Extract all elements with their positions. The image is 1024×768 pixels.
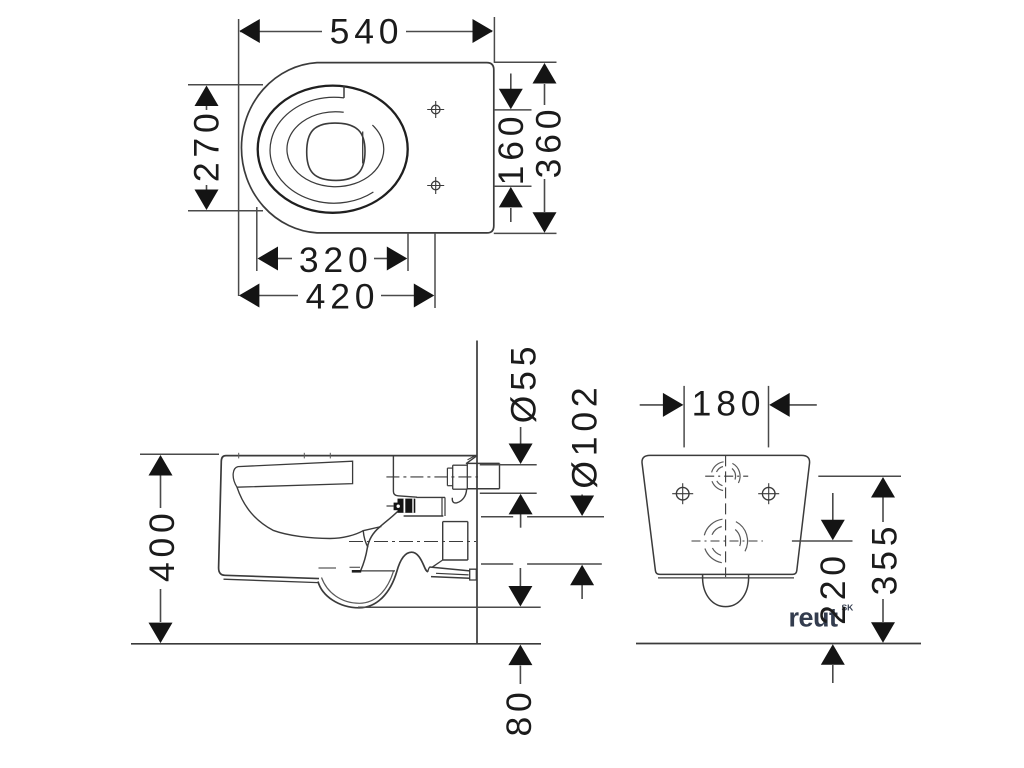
dim 320 arrow left xyxy=(258,247,279,271)
top view: rim inner spiral xyxy=(270,97,373,203)
side view: outlet box diagonal xyxy=(432,560,443,567)
dim 355 line xyxy=(882,497,884,522)
top view: fixing hole lower xyxy=(427,177,444,194)
side view: floor line left xyxy=(131,643,541,645)
dim 420 arrow left xyxy=(239,284,260,308)
dim 355 arrow top xyxy=(871,477,895,498)
dim 420 line xyxy=(258,295,298,297)
side view: sump tick bold xyxy=(352,570,361,573)
side view: weir back curve xyxy=(361,512,398,571)
rear view: fixing hole right xyxy=(758,483,779,504)
side view: flange step xyxy=(447,467,452,469)
dim 320 ext left xyxy=(256,207,258,271)
side view: seat surface xyxy=(233,461,352,487)
rear view: outlet bump xyxy=(703,574,749,606)
side view: trap U inner xyxy=(322,571,394,603)
svg-text:540: 540 xyxy=(330,12,404,52)
dim 80 arrow bottom xyxy=(508,645,532,666)
dim 160/360 ext top xyxy=(494,61,557,63)
dim 160 arrow top xyxy=(499,89,523,110)
rear view: outlet axis dash xyxy=(692,540,763,542)
side view: spigot flange xyxy=(453,464,468,466)
dim 400 arrow top xyxy=(149,455,173,476)
dim 220 arrow bottom xyxy=(821,644,845,665)
dim 160/360 ext bottom xyxy=(494,232,557,234)
side view: spigot hook xyxy=(452,489,466,503)
dim 420 ext right xyxy=(434,233,436,308)
dim 160 line xyxy=(510,74,512,90)
dim 270 arrow top xyxy=(195,86,219,107)
dim 540 ext left xyxy=(238,19,240,296)
side view: trap U outer xyxy=(318,552,428,608)
side view: water dash 1 xyxy=(319,567,337,569)
dim O55 arrow top xyxy=(509,444,533,465)
dim O102 ext top xyxy=(481,516,513,518)
dim 540 arrow left xyxy=(239,19,259,43)
side view: top edge xyxy=(226,455,477,457)
dim O55 ext bottom xyxy=(480,492,537,494)
dim O102 line xyxy=(581,495,583,496)
dim O55 line xyxy=(520,427,522,444)
top view: rim spiral step xyxy=(343,85,345,98)
side view: bolt leader line xyxy=(387,505,394,507)
dim 160/360 ext hole1 xyxy=(494,109,532,111)
dim 355 ext top xyxy=(818,475,901,477)
svg-text:180: 180 xyxy=(692,384,766,424)
side view: back vertical xyxy=(393,456,417,498)
rear view: outlet arcs xyxy=(704,519,722,535)
dim 320 arrow right xyxy=(387,247,408,271)
dim O102 arrow bottom xyxy=(570,565,594,586)
dim 180 line left xyxy=(640,404,663,406)
rear view: fixing hole left xyxy=(672,483,693,504)
dim O55 arrow bottom xyxy=(509,494,533,515)
dim 180 arrow right xyxy=(769,393,790,417)
dim 360 line xyxy=(544,84,546,105)
dim 270 ext bottom xyxy=(188,210,263,212)
dim 540 arrow right xyxy=(473,19,494,43)
side view: bowl interior xyxy=(237,487,363,538)
dim 400 ext top xyxy=(140,453,219,455)
dim 320 line xyxy=(277,258,292,260)
dim 80 line upper xyxy=(519,568,521,586)
side view: wall line xyxy=(476,341,478,644)
dim 180 arrow left xyxy=(663,393,684,417)
svg-text:400: 400 xyxy=(142,508,182,582)
svg-text:Ø102: Ø102 xyxy=(565,383,605,489)
side view: outlet wedge xyxy=(430,567,470,571)
top view: WC outline (plan) xyxy=(241,63,493,233)
rear view: center dash line xyxy=(725,455,727,577)
side view: supply axis dash-dot xyxy=(386,476,478,478)
dim 270 line xyxy=(206,103,208,110)
side view: fixing bolt black xyxy=(398,499,416,513)
dim 160/360 ext hole2 xyxy=(494,185,532,187)
dim 220 line upper xyxy=(832,493,834,520)
side view: wall chamfer xyxy=(466,456,477,464)
dim 80 ext line xyxy=(358,606,541,608)
dim 220 line lower xyxy=(832,665,834,683)
dim 80 arrow top xyxy=(508,586,532,607)
dim O102 ext bottom xyxy=(481,563,513,565)
side view: outlet box at wall xyxy=(443,521,468,523)
side view: top edge ticks xyxy=(238,453,240,459)
dim O55 ext top xyxy=(480,464,537,466)
svg-text:80: 80 xyxy=(499,687,539,736)
dim 160 arrow bottom xyxy=(499,187,523,208)
dim 360 arrow top xyxy=(533,63,557,84)
svg-text:355: 355 xyxy=(865,522,905,596)
top view: fixing hole upper xyxy=(427,101,444,118)
dim 220 ext xyxy=(792,540,853,542)
rear view: floor line xyxy=(636,643,921,645)
dim 540 ext right xyxy=(493,17,495,63)
svg-text:220: 220 xyxy=(813,551,853,625)
rear view: bottom double line xyxy=(658,577,794,579)
top view: drain opening xyxy=(307,123,365,180)
rear view: supply arcs xyxy=(712,462,724,473)
rear view: outline xyxy=(642,455,810,574)
dim 400 line xyxy=(160,474,162,508)
dim 220 arrow top xyxy=(821,520,845,541)
rear view: supply axis dash xyxy=(705,475,748,477)
dim 270 arrow bottom xyxy=(195,190,219,211)
dim 270 ext top xyxy=(188,84,263,86)
dim 420 arrow right xyxy=(414,284,435,308)
dim 180 ext left xyxy=(683,386,685,448)
svg-text:Ø55: Ø55 xyxy=(503,342,543,424)
dim 360 arrow bottom xyxy=(533,212,557,233)
dim 180 line right xyxy=(790,404,817,406)
dim O102 arrow top xyxy=(570,496,594,517)
dim 80 line lower xyxy=(519,666,521,685)
side view: bracket box xyxy=(416,496,445,498)
svg-text:160: 160 xyxy=(491,112,531,186)
dim 355 arrow bottom xyxy=(871,622,895,643)
side view: sump bottom line xyxy=(361,570,395,572)
svg-text:420: 420 xyxy=(306,276,380,316)
dim 540 line xyxy=(240,31,322,33)
svg-text:270: 270 xyxy=(187,108,227,182)
svg-text:360: 360 xyxy=(529,105,569,179)
side view: outlet axis dash-dot xyxy=(349,541,476,543)
side view: water dash 2 xyxy=(350,566,361,568)
svg-text:320: 320 xyxy=(299,240,373,280)
dim 320 ext right xyxy=(407,233,409,271)
top view: water edge oval xyxy=(287,112,384,187)
dim 180 ext right xyxy=(768,386,770,448)
dim 400 arrow bottom xyxy=(149,623,173,644)
side view: bottom edge double xyxy=(225,575,319,578)
side view: weir flag xyxy=(363,527,381,548)
top view: bowl rim outer (bold) xyxy=(258,86,408,213)
top view: drain notch line xyxy=(362,132,364,164)
side view: supply spigot xyxy=(467,462,500,464)
